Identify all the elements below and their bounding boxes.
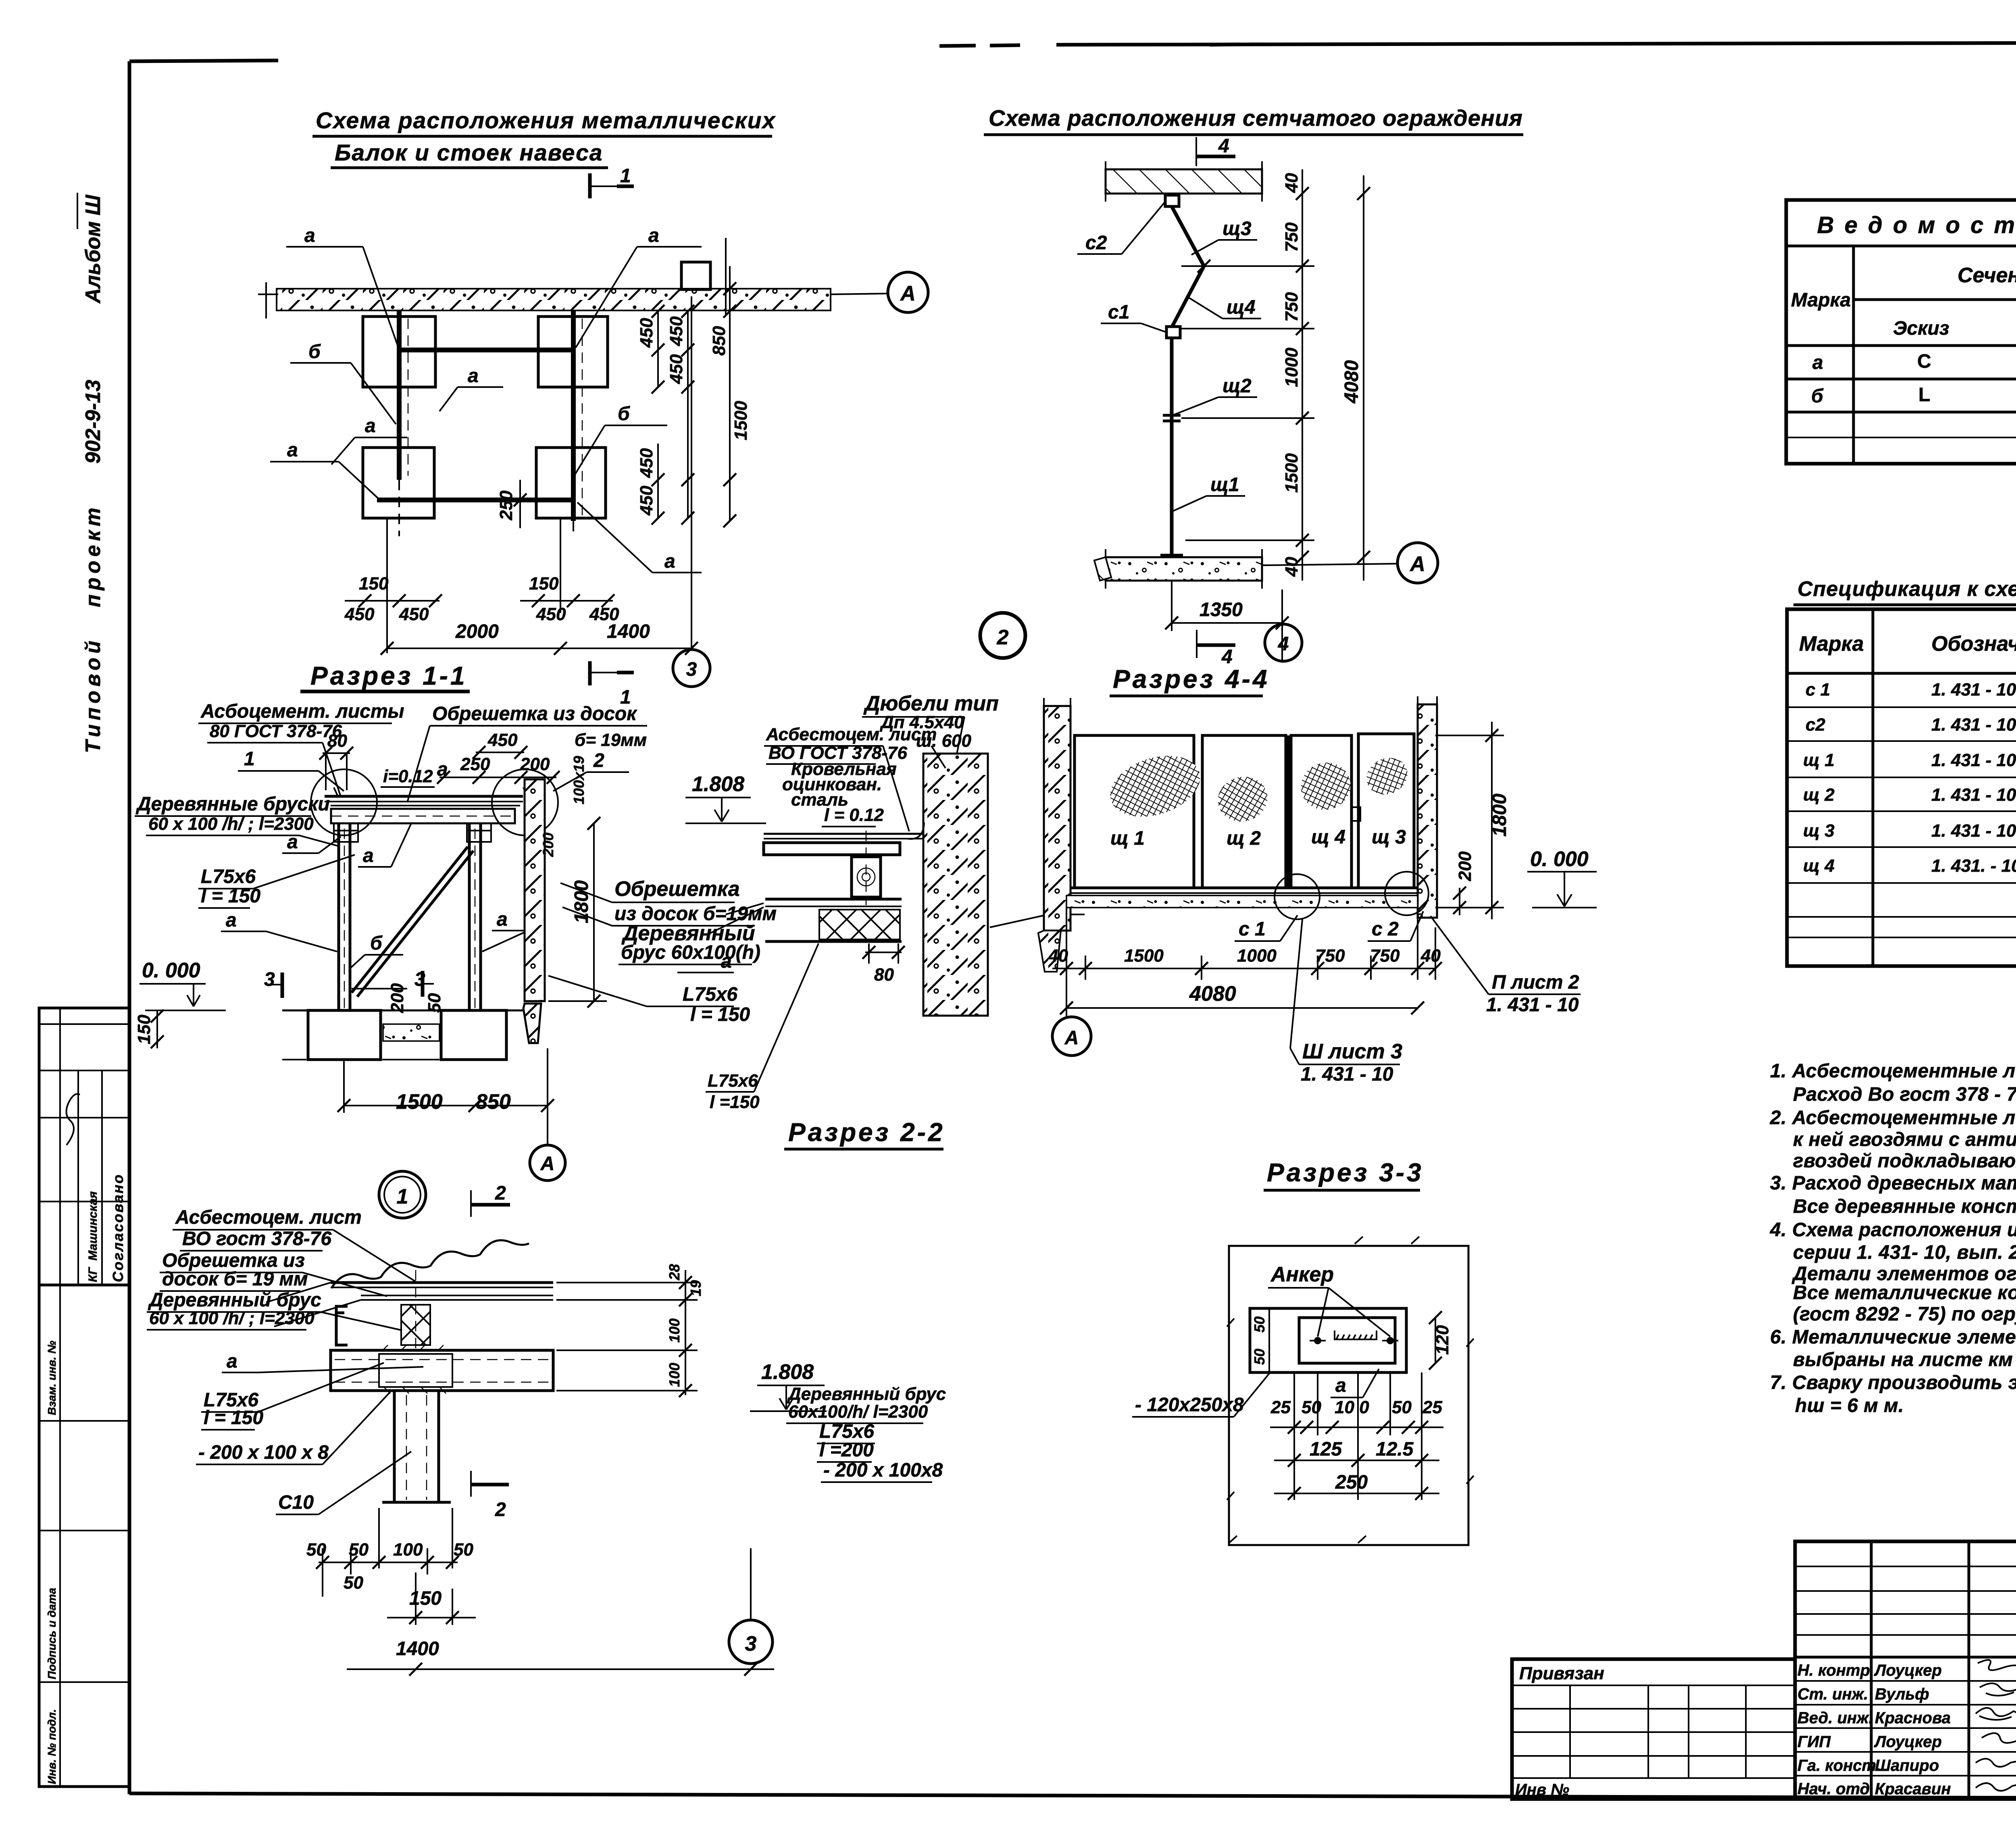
svg-text:1500: 1500 xyxy=(731,401,751,440)
svg-text:6. Металлические элементы: 6. Металлические элементы к схеме распол… xyxy=(1770,1327,2016,1348)
svg-text:щ 2: щ 2 xyxy=(1227,828,1261,849)
svg-text:Спецификация к схеме распол: Спецификация к схеме расположения сетчат… xyxy=(1797,577,2016,601)
svg-text:щ 4: щ 4 xyxy=(1803,856,1835,876)
svg-text:450: 450 xyxy=(344,604,375,624)
svg-text:Привязан: Привязан xyxy=(1519,1664,1604,1683)
svg-text:Ш лист 3: Ш лист 3 xyxy=(1302,1040,1402,1063)
svg-text:а: а xyxy=(287,439,298,461)
svg-text:- 120х250х8: - 120х250х8 xyxy=(1135,1394,1244,1416)
svg-text:1350: 1350 xyxy=(1200,599,1243,621)
svg-text:щ2: щ2 xyxy=(1223,375,1252,397)
svg-text:а: а xyxy=(304,225,315,246)
svg-text:а: а xyxy=(1812,352,1823,373)
svg-text:а: а xyxy=(437,759,448,780)
svg-text:А: А xyxy=(900,282,916,305)
svg-text:Лоуцкер: Лоуцкер xyxy=(1874,1662,1942,1679)
svg-text:гвоздей подкладываются шайб: гвоздей подкладываются шайбы. вырезанные… xyxy=(1793,1150,2016,1172)
svg-text:Все металлические конструкц: Все металлические конструкции покрасить … xyxy=(1793,1282,2016,1304)
svg-text:200: 200 xyxy=(520,754,550,774)
svg-text:- 200 х 100 х 8: - 200 х 100 х 8 xyxy=(198,1442,329,1463)
svg-text:Разрез 2-2: Разрез 2-2 xyxy=(788,1118,945,1147)
svg-text:1400: 1400 xyxy=(396,1638,439,1660)
svg-text:50: 50 xyxy=(1251,1316,1268,1333)
svg-text:l = 0.12: l = 0.12 xyxy=(824,805,884,825)
svg-text:100: 100 xyxy=(666,1363,683,1387)
svg-text:б: б xyxy=(618,403,630,425)
svg-text:1. 431. - 10 вып 2. 3: 1. 431. - 10 вып 2. 3 xyxy=(1931,856,2016,876)
svg-text:досок б= 19 мм: досок б= 19 мм xyxy=(162,1268,308,1290)
svg-text:80 ГОСТ 378-76: 80 ГОСТ 378-76 xyxy=(210,721,342,741)
svg-text:Обозначение: Обозначение xyxy=(1931,632,2016,656)
svg-text:Разрез 3-3: Разрез 3-3 xyxy=(1267,1158,1424,1187)
svg-text:а: а xyxy=(648,225,659,246)
svg-text:Подпись и дата: Подпись и дата xyxy=(46,1588,58,1679)
svg-text:серии 1. 431- 10, вып. 2: серии 1. 431- 10, вып. 2 xyxy=(1793,1242,2016,1263)
svg-text:Н. контр: Н. контр xyxy=(1797,1662,1870,1679)
svg-text:40: 40 xyxy=(1048,946,1068,966)
svg-text:i=0.12: i=0.12 xyxy=(383,766,433,786)
svg-text:Красавин: Красавин xyxy=(1875,1780,1951,1798)
svg-text:Альбом Ш: Альбом Ш xyxy=(81,194,105,304)
svg-text:2: 2 xyxy=(495,1183,506,1204)
svg-text:щ 1: щ 1 xyxy=(1110,828,1145,849)
svg-text:1.808: 1.808 xyxy=(692,773,744,796)
svg-text:2: 2 xyxy=(593,750,604,771)
svg-text:50: 50 xyxy=(454,1540,473,1560)
svg-text:б: б xyxy=(370,933,383,954)
svg-text:l = 150: l = 150 xyxy=(201,885,260,907)
svg-text:Балок и стоек навеса: Балок и стоек навеса xyxy=(335,140,603,166)
svg-text:Ст. инж.: Ст. инж. xyxy=(1797,1685,1868,1703)
svg-text:250: 250 xyxy=(1335,1472,1368,1493)
svg-text:40: 40 xyxy=(1282,173,1302,193)
svg-text:б= 19мм: б= 19мм xyxy=(575,730,647,750)
svg-text:Дюбели тип: Дюбели тип xyxy=(863,692,999,715)
svg-text:850: 850 xyxy=(709,326,729,356)
svg-text:Сечение: Сечение xyxy=(1958,264,2016,287)
svg-text:1. Асбестоцементные листы: 1. Асбестоцементные листы приняты по гос… xyxy=(1770,1060,2016,1082)
svg-text:А: А xyxy=(1409,552,1425,576)
svg-text:l = 150: l = 150 xyxy=(204,1407,263,1429)
svg-text:щ 2: щ 2 xyxy=(1803,785,1835,805)
svg-text:100: 100 xyxy=(666,1318,683,1343)
svg-text:С: С xyxy=(1917,351,1931,372)
svg-text:1000: 1000 xyxy=(1237,946,1277,966)
svg-text:10 0: 10 0 xyxy=(1335,1397,1369,1417)
svg-text:2. Асбестоцементные листы: 2. Асбестоцементные листы укладываются н… xyxy=(1770,1107,2016,1129)
svg-text:Типовой проект: Типовой проект xyxy=(81,504,105,753)
svg-text:120: 120 xyxy=(1433,1325,1452,1355)
svg-text:1. 431 - 10 вып 2, 3: 1. 431 - 10 вып 2, 3 xyxy=(1931,750,2016,770)
svg-text:902-9-13: 902-9-13 xyxy=(81,380,105,464)
svg-text:Нач. отд: Нач. отд xyxy=(1797,1780,1870,1798)
svg-text:а: а xyxy=(226,910,237,931)
svg-text:а: а xyxy=(468,365,479,387)
svg-text:1400: 1400 xyxy=(607,621,650,642)
svg-text:3: 3 xyxy=(264,969,275,990)
svg-text:L75х6: L75х6 xyxy=(201,866,256,887)
svg-text:750: 750 xyxy=(1370,946,1400,966)
svg-text:100: 100 xyxy=(393,1540,423,1560)
svg-text:Асбоцемент. листы: Асбоцемент. листы xyxy=(200,701,404,722)
svg-text:60х100/h/ l=2300: 60х100/h/ l=2300 xyxy=(788,1402,928,1422)
svg-text:Взам. инв. №: Взам. инв. № xyxy=(46,1341,58,1415)
svg-text:а: а xyxy=(664,551,675,572)
svg-text:а: а xyxy=(287,831,298,853)
svg-text:200: 200 xyxy=(540,833,556,857)
svg-text:100х19: 100х19 xyxy=(571,756,587,804)
svg-text:а: а xyxy=(721,951,732,972)
svg-text:4080: 4080 xyxy=(1189,982,1236,1006)
svg-text:3. Расход древесных мате: 3. Расход древесных материалов составляе… xyxy=(1770,1172,2016,1194)
svg-text:с1: с1 xyxy=(1108,302,1129,323)
svg-text:60 х 100 /h/ ; l=2300: 60 х 100 /h/ ; l=2300 xyxy=(148,814,314,834)
svg-text:Асбестоцем. лист: Асбестоцем. лист xyxy=(175,1207,362,1228)
svg-text:Расход Во гост 378 - 76 сос: Расход Во гост 378 - 76 составляет 6 шт. xyxy=(1793,1084,2016,1105)
svg-text:Инв №: Инв № xyxy=(1515,1781,1569,1799)
svg-text:hш = 6 м м.: hш = 6 м м. xyxy=(1795,1395,1904,1416)
svg-text:40: 40 xyxy=(1282,557,1302,577)
svg-text:Шапиро: Шапиро xyxy=(1875,1757,1939,1774)
svg-text:450: 450 xyxy=(637,448,656,478)
svg-text:щ3: щ3 xyxy=(1223,218,1252,239)
svg-text:Вульф: Вульф xyxy=(1875,1685,1929,1703)
svg-text:Разрез 1-1: Разрез 1-1 xyxy=(310,661,467,690)
svg-text:50: 50 xyxy=(349,1540,369,1560)
svg-text:Краснова: Краснова xyxy=(1875,1709,1951,1727)
svg-text:750: 750 xyxy=(1282,222,1302,252)
svg-text:1. 431 - 10 вып. 2. 3: 1. 431 - 10 вып. 2. 3 xyxy=(1931,715,2016,735)
svg-text:щ 4: щ 4 xyxy=(1311,827,1345,848)
svg-text:50: 50 xyxy=(1392,1397,1412,1417)
svg-text:200: 200 xyxy=(387,983,407,1013)
svg-text:150: 150 xyxy=(359,574,389,594)
svg-text:450: 450 xyxy=(666,354,686,384)
svg-text:2: 2 xyxy=(997,626,1009,649)
svg-text:- 200 х 100х8: - 200 х 100х8 xyxy=(823,1460,943,1481)
svg-text:с 1: с 1 xyxy=(1806,680,1830,700)
svg-text:0. 000: 0. 000 xyxy=(1530,848,1589,871)
svg-text:1. 431 - 10: 1. 431 - 10 xyxy=(1301,1064,1393,1085)
svg-text:0. 000: 0. 000 xyxy=(142,959,200,982)
svg-text:450: 450 xyxy=(637,318,656,348)
svg-text:П лист 2: П лист 2 xyxy=(1492,972,1579,993)
svg-text:150: 150 xyxy=(409,1588,442,1609)
svg-text:200: 200 xyxy=(1455,851,1475,881)
svg-text:с2: с2 xyxy=(1806,715,1825,735)
svg-text:L75х6: L75х6 xyxy=(683,984,737,1005)
svg-text:450: 450 xyxy=(399,604,429,624)
svg-text:1500: 1500 xyxy=(1282,453,1302,493)
svg-text:1800: 1800 xyxy=(571,880,592,923)
svg-text:2000: 2000 xyxy=(455,621,499,642)
svg-text:125: 125 xyxy=(1310,1439,1342,1460)
svg-text:25: 25 xyxy=(1422,1397,1442,1417)
svg-text:1.808: 1.808 xyxy=(761,1360,814,1384)
svg-text:а: а xyxy=(497,909,508,930)
svg-text:Га. конст.: Га. конст. xyxy=(1797,1757,1881,1774)
svg-text:28: 28 xyxy=(666,1264,683,1281)
svg-text:Вед. инж.: Вед. инж. xyxy=(1797,1709,1873,1727)
svg-text:3: 3 xyxy=(686,659,697,680)
svg-text:Марка: Марка xyxy=(1799,632,1864,656)
svg-text:щ 3: щ 3 xyxy=(1803,821,1835,841)
svg-text:(гост 8292 - 75) по огрун: (гост 8292 - 75) по огрунтовке. xyxy=(1793,1304,2016,1325)
svg-text:l =150: l =150 xyxy=(710,1092,760,1112)
svg-text:L75х6: L75х6 xyxy=(708,1071,758,1091)
svg-text:брус 60х100(h): брус 60х100(h) xyxy=(621,942,760,963)
svg-text:50: 50 xyxy=(306,1540,326,1560)
svg-text:450: 450 xyxy=(637,485,656,516)
svg-text:Согласовано: Согласовано xyxy=(110,1173,126,1282)
svg-text:l =200: l =200 xyxy=(819,1439,874,1461)
svg-text:1: 1 xyxy=(244,748,255,770)
svg-text:450: 450 xyxy=(666,316,686,346)
svg-text:1500: 1500 xyxy=(1124,946,1164,966)
svg-text:4080: 4080 xyxy=(1341,360,1362,404)
svg-text:1. 431 - 10 вып 2. 3: 1. 431 - 10 вып 2. 3 xyxy=(1931,821,2016,841)
svg-text:Инв. № подл.: Инв. № подл. xyxy=(46,1709,58,1784)
svg-text:ГИП: ГИП xyxy=(1797,1733,1831,1751)
svg-text:7. Сварку производить эле: 7. Сварку производить электродами типа 3… xyxy=(1770,1372,2016,1393)
svg-text:б: б xyxy=(308,341,321,362)
svg-text:а: а xyxy=(365,415,376,437)
svg-text:1500: 1500 xyxy=(396,1090,443,1114)
svg-text:3: 3 xyxy=(745,1632,757,1656)
svg-text:Асбестоцем. лист: Асбестоцем. лист xyxy=(766,725,937,744)
svg-text:ВО гост 378-76: ВО гост 378-76 xyxy=(182,1228,331,1249)
svg-text:Все деревянные конструкции: Все деревянные конструкции окрасить масл… xyxy=(1793,1196,2016,1217)
svg-text:Деревянные бруски: Деревянные бруски xyxy=(135,793,330,815)
svg-text:А: А xyxy=(540,1153,555,1175)
svg-text:4: 4 xyxy=(1218,135,1229,157)
svg-text:Обрешетка: Обрешетка xyxy=(614,877,740,901)
svg-text:2: 2 xyxy=(495,1499,506,1520)
svg-text:А: А xyxy=(1064,1027,1079,1049)
svg-text:4: 4 xyxy=(1278,633,1289,655)
svg-text:750: 750 xyxy=(1315,946,1345,966)
svg-text:выбраны на листе км - 1.: выбраны на листе км - 1. xyxy=(1793,1349,2016,1370)
svg-text:450: 450 xyxy=(487,730,518,750)
svg-text:1: 1 xyxy=(397,1185,408,1208)
svg-text:Детали элементов ограждения: Детали элементов ограждения даны в серии… xyxy=(1791,1263,2016,1285)
svg-text:750: 750 xyxy=(1282,292,1302,322)
svg-text:Разрез 4-4: Разрез 4-4 xyxy=(1113,664,1270,693)
svg-text:150: 150 xyxy=(134,1014,154,1044)
svg-text:50: 50 xyxy=(344,1573,363,1593)
svg-text:щ 1: щ 1 xyxy=(1803,750,1835,770)
svg-text:Марка: Марка xyxy=(1791,289,1851,311)
svg-text:С10: С10 xyxy=(278,1492,314,1513)
svg-text:4. Схема расположения и: 4. Схема расположения и узлы крепления с… xyxy=(1770,1219,2016,1241)
svg-text:1000: 1000 xyxy=(1282,348,1302,387)
svg-text:б: б xyxy=(1811,385,1824,407)
svg-text:с2: с2 xyxy=(1085,232,1107,254)
svg-text:щ1: щ1 xyxy=(1210,474,1239,496)
svg-text:В е д о м о с т ь э л е м е: В е д о м о с т ь э л е м е н т о в xyxy=(1817,212,2016,238)
svg-text:850: 850 xyxy=(476,1090,511,1114)
svg-text:Эскиз: Эскиз xyxy=(1893,318,1949,339)
svg-text:L: L xyxy=(1918,384,1930,406)
svg-text:щ4: щ4 xyxy=(1227,297,1256,318)
svg-text:250: 250 xyxy=(496,490,516,521)
svg-text:1800: 1800 xyxy=(1489,793,1510,837)
svg-text:150: 150 xyxy=(529,574,559,594)
svg-text:Лоуцкер: Лоуцкер xyxy=(1874,1733,1942,1751)
svg-text:l = 150: l = 150 xyxy=(690,1004,750,1025)
svg-text:а: а xyxy=(1335,1375,1346,1396)
svg-text:1: 1 xyxy=(620,165,631,187)
svg-text:1. 431 - 10 вып 2, 3: 1. 431 - 10 вып 2, 3 xyxy=(1931,680,2016,700)
svg-text:450: 450 xyxy=(536,604,566,624)
svg-text:250: 250 xyxy=(460,754,490,774)
svg-text:25: 25 xyxy=(1270,1397,1291,1417)
svg-text:Схема расположения металличе: Схема расположения металлических xyxy=(316,108,776,133)
svg-text:Схема расположения сетчатого: Схема расположения сетчатого ограждения xyxy=(989,105,1523,131)
svg-text:50: 50 xyxy=(1251,1349,1268,1365)
svg-text:50: 50 xyxy=(1302,1397,1321,1417)
svg-text:КГ Машинская: КГ Машинская xyxy=(86,1191,100,1282)
svg-text:щ 3: щ 3 xyxy=(1372,827,1406,848)
svg-text:а: а xyxy=(363,845,374,866)
svg-text:60 х 100 /h/ ; l=2300: 60 х 100 /h/ ; l=2300 xyxy=(149,1308,314,1328)
svg-text:Анкер: Анкер xyxy=(1270,1263,1334,1286)
svg-text:1. 431 - 10 вып 2. 3: 1. 431 - 10 вып 2. 3 xyxy=(1931,785,2016,805)
svg-text:с 2: с 2 xyxy=(1372,918,1399,940)
svg-text:Деревянный брус: Деревянный брус xyxy=(787,1384,946,1404)
svg-text:1. 431 - 10: 1. 431 - 10 xyxy=(1486,994,1579,1016)
svg-text:80: 80 xyxy=(874,965,894,985)
svg-text:к ней гвоздями с антикорр: к ней гвоздями с антикоррозийной шляпкой… xyxy=(1793,1129,2016,1150)
svg-text:а: а xyxy=(227,1351,237,1372)
svg-text:Обрешетка из досок: Обрешетка из досок xyxy=(432,703,637,725)
svg-text:с 1: с 1 xyxy=(1239,918,1266,940)
svg-text:12.5: 12.5 xyxy=(1376,1439,1414,1460)
